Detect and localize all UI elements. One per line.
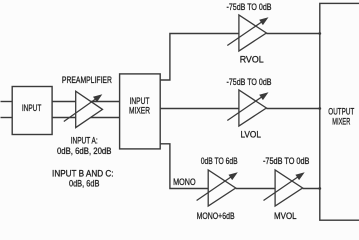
block INPUT xyxy=(12,87,52,135)
svg-text:MVOL: MVOL xyxy=(274,211,297,221)
wire LVOL output xyxy=(266,108,319,110)
amplifier PREAMPLIFIER U1 xyxy=(64,91,103,127)
svg-text:OUTPUT: OUTPUT xyxy=(328,106,354,116)
svg-text:RVOL: RVOL xyxy=(240,55,264,65)
block INPUT MIXER xyxy=(120,74,161,149)
svg-text:PREAMPLIFIER: PREAMPLIFIER xyxy=(62,75,112,85)
svg-text:-75dB TO 0dB: -75dB TO 0dB xyxy=(227,77,272,87)
wire input left 2 xyxy=(1,117,13,119)
svg-text:0dB TO 6dB: 0dB TO 6dB xyxy=(201,156,238,166)
svg-text:LVOL: LVOL xyxy=(240,130,261,140)
wire input box to input mixer line 2 xyxy=(52,117,120,119)
amplifier LVOL xyxy=(227,90,268,126)
svg-text:INPUT: INPUT xyxy=(22,103,42,113)
svg-text:MIXER: MIXER xyxy=(332,116,350,126)
junction RVOL/output mixer xyxy=(318,32,321,35)
wire mixer bottom output MONO net xyxy=(160,144,208,189)
junction MVOL/output mixer xyxy=(318,187,321,190)
svg-text:-75dB TO 0dB: -75dB TO 0dB xyxy=(227,2,272,12)
amplifier MVOL xyxy=(264,170,305,206)
svg-text:MIXER: MIXER xyxy=(129,105,150,115)
wire MVOL output xyxy=(303,188,320,190)
svg-text:INPUT B AND C:: INPUT B AND C: xyxy=(52,168,114,178)
amplifier MONO+6dB xyxy=(197,170,238,206)
wire input box to input mixer line 1 xyxy=(52,101,120,103)
svg-text:0dB, 6dB, 20dB: 0dB, 6dB, 20dB xyxy=(57,146,112,156)
wire RVOL output xyxy=(266,33,319,35)
svg-text:MONO+6dB: MONO+6dB xyxy=(197,211,235,221)
amplifier RVOL xyxy=(227,15,268,51)
wire mixer middle output to LVOL xyxy=(160,108,239,110)
wire mixer top output to RVOL xyxy=(160,34,239,81)
block OUTPUT MIXER xyxy=(320,3,359,220)
svg-text:MONO: MONO xyxy=(173,177,196,187)
junction LVOL/output mixer xyxy=(318,107,321,110)
wire input left 1 xyxy=(1,101,13,103)
svg-text:0dB, 6dB: 0dB, 6dB xyxy=(69,178,100,188)
svg-text:INPUT A:: INPUT A: xyxy=(71,136,98,146)
wire MONO+6dB output to MVOL xyxy=(236,188,275,190)
svg-text:-75dB TO 0dB: -75dB TO 0dB xyxy=(263,156,310,166)
